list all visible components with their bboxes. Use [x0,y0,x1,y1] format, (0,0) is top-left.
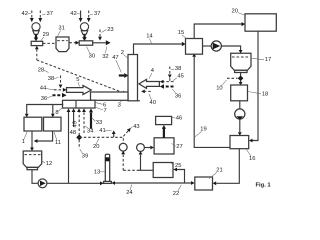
box 25 [153,163,173,178]
label 36 left [41,96,53,102]
label 4 [149,68,155,79]
wire dashed 45 [160,80,174,84]
svg-text:42: 42 [22,11,28,17]
label 48 [70,130,76,136]
svg-text:39: 39 [82,154,88,160]
label 44 [40,85,54,91]
label 6 [95,102,107,108]
label 33 [92,118,103,127]
svg-text:38: 38 [48,76,54,82]
wire box15 to box 20 [194,22,245,38]
svg-text:20: 20 [232,8,238,14]
svg-text:38: 38 [175,66,181,72]
box 16 [230,136,249,149]
svg-text:43: 43 [133,124,139,130]
svg-text:15: 15 [178,30,184,36]
svg-text:48: 48 [70,130,76,136]
svg-text:16: 16 [249,156,255,162]
label 42 feed A [22,11,32,17]
wire dashed 44 [54,88,67,92]
svg-text:47: 47 [112,55,118,61]
wire dashed feed 37B [87,11,91,23]
wire dashed 38 right [168,67,172,82]
label 15 [178,30,187,39]
label 22 [173,185,182,197]
svg-text:30: 30 [89,54,95,60]
wire feed 42B [79,11,83,23]
label 45 [173,73,184,80]
label 16 [247,150,256,163]
label 38 left [48,76,59,82]
label 8 [55,108,62,116]
wire box15 to pump B [203,45,212,47]
box 18 [231,85,248,101]
svg-text:34: 34 [87,128,94,134]
label 20 top [232,8,246,15]
wire 35 bar to boxes [25,105,64,118]
label 42 feed B [70,11,80,17]
solid arrow 33 [89,108,93,128]
label 27 [171,143,182,150]
bar 6 mixer [63,100,96,108]
hollow arrow 4 [139,79,159,88]
feeder arrow into rect 30 [82,34,87,41]
label 40 [149,94,156,106]
pump P2 circle [137,144,145,171]
vessel 12 [23,151,42,170]
label 46 [172,115,182,121]
svg-text:22: 22 [173,191,179,197]
label 43 [131,124,140,130]
label 38 right [171,66,181,72]
label 10 [216,80,226,92]
svg-text:20: 20 [93,144,99,150]
duct 3 [91,92,129,100]
svg-text:1: 1 [22,139,25,145]
label 25 [171,163,181,169]
label 23 [102,27,114,33]
svg-text:8: 8 [55,110,58,116]
feeder arrow into rect 29 [34,34,39,41]
label 39 [80,149,88,159]
svg-text:11: 11 [55,140,61,146]
svg-text:24: 24 [126,190,133,196]
box 15 [186,39,203,55]
wire dashed 10 [227,77,238,79]
column 2 [128,55,140,101]
label 11 [54,132,61,146]
box 11 [44,117,62,131]
wire box 25 feed to pumps [123,169,153,171]
svg-text:37: 37 [94,11,100,17]
svg-text:17: 17 [265,57,271,63]
label 31 [58,26,65,37]
wire thick dashed 36 right [160,84,174,89]
hollow arrow 5 [67,85,92,94]
wire dashed feed 42A [30,11,34,23]
box 20 [245,14,276,31]
arrow 41 up [112,130,116,137]
label 5 [76,77,79,86]
svg-text:2: 2 [121,50,124,56]
rect 30 feeder [79,41,93,45]
svg-text:12: 12 [46,161,52,167]
svg-text:23: 23 [107,27,113,33]
wire box16 drain to box 21 [213,149,240,186]
svg-text:36: 36 [41,96,47,102]
wire thick dashed 36 left [53,93,67,98]
wire dashed below rect 29 [35,46,39,60]
label 24 [126,185,133,197]
vessel 31 [56,37,69,52]
svg-text:28: 28 [38,68,44,74]
wire drain box11 joins [34,131,53,143]
label 47 [112,55,121,73]
label 36 right [172,89,181,100]
wire pump B to vessel 17 [221,46,242,53]
label 34 [85,126,94,134]
label 13 [94,170,105,176]
label 12 [41,161,52,168]
svg-text:33: 33 [96,120,102,126]
fig caption [256,182,272,188]
wire stream 32 with arrow [93,40,111,45]
label 19 [195,127,207,137]
wire dashed 39 stub [78,140,80,149]
hopper circle A [32,23,40,35]
wire dashed line 20 [79,137,123,143]
svg-text:7: 7 [104,108,107,114]
wire dashed diagonal 28 [37,60,128,95]
box 27 [154,138,174,154]
wire box20 down to box16 [249,31,258,142]
pump bottom-left [38,179,47,188]
label 17 [252,57,271,63]
box 46 [156,116,172,124]
svg-text:10: 10 [216,86,222,92]
svg-text:31: 31 [58,26,64,32]
wire pump C to box 16 [238,119,242,136]
pump B circle [211,41,221,51]
label 21 [209,168,223,179]
label 41 [99,128,111,134]
arrow 47 thick [119,73,128,78]
label 3 [118,100,123,108]
svg-text:41: 41 [99,128,105,134]
svg-text:27: 27 [176,144,182,150]
wire dashed 38 left [59,76,63,89]
label 49 vertical [72,121,78,127]
label 2 [121,50,128,58]
riser 48 bottom line to bar 6 [67,108,71,183]
svg-text:37: 37 [47,11,53,17]
wire vessel17 to box18 with junction [238,73,244,86]
svg-text:4: 4 [151,68,155,74]
svg-text:Fig. 1: Fig. 1 [256,182,272,188]
wire 22 24 bottom [111,181,194,185]
label 7 [95,107,107,114]
wire pump P2 to box 27 [144,146,154,150]
svg-text:13: 13 [94,170,100,176]
box 1 [24,117,42,131]
label 29 [41,32,50,41]
wire dashed vessel31 to rect30 [69,41,79,45]
label 32 [102,47,108,60]
svg-text:42: 42 [70,11,76,17]
label 28 [38,68,49,74]
wire inlet box 25 from line 22 [173,168,184,184]
svg-text:36: 36 [175,94,181,100]
hopper circle B [80,23,88,35]
riser dashed 20 to bar 6 [77,108,81,135]
box 21 [195,177,213,190]
arrow box27 to box46 [162,125,166,138]
junction diamond line 20 [76,134,82,140]
wire dashed 40 [141,90,151,94]
svg-text:18: 18 [262,91,268,97]
wire 14 column to box 15 [134,42,186,55]
dashed arrow 34 [82,108,86,133]
riser 49 arrow [72,108,76,127]
svg-text:45: 45 [177,73,183,79]
svg-text:40: 40 [150,100,156,106]
svg-text:49: 49 [72,121,78,127]
wire dashed rect29 to vessel 31 [43,42,56,44]
rect 29 feeder [31,41,43,45]
label 30 [87,47,95,60]
wire pump to tube 13 [47,181,104,185]
svg-text:25: 25 [175,163,181,169]
wire drain box1 to vessel12 [30,131,34,151]
label 1 [22,132,27,145]
vessel 17 [231,53,251,72]
wire dashed dosing 23 [98,30,102,41]
pump P1 circle [119,143,127,170]
svg-text:32: 32 [102,54,108,60]
tube 13 [104,154,112,183]
wire box18 to pump C [239,101,241,109]
svg-text:46: 46 [176,115,182,121]
wire loop 19 box16 to box15 [192,53,230,147]
label 20 line [93,139,99,150]
dashed arrow 43 [123,128,130,136]
svg-text:21: 21 [216,168,222,174]
label 18 [248,91,268,97]
label 37 feed B [90,11,101,17]
label 37 feed A [42,11,53,17]
svg-text:3: 3 [118,103,121,109]
wire vessel12 to pump [32,170,38,184]
wire dashed feed 37A [38,11,42,23]
label 14 [146,34,153,44]
pump C circle [235,109,245,120]
